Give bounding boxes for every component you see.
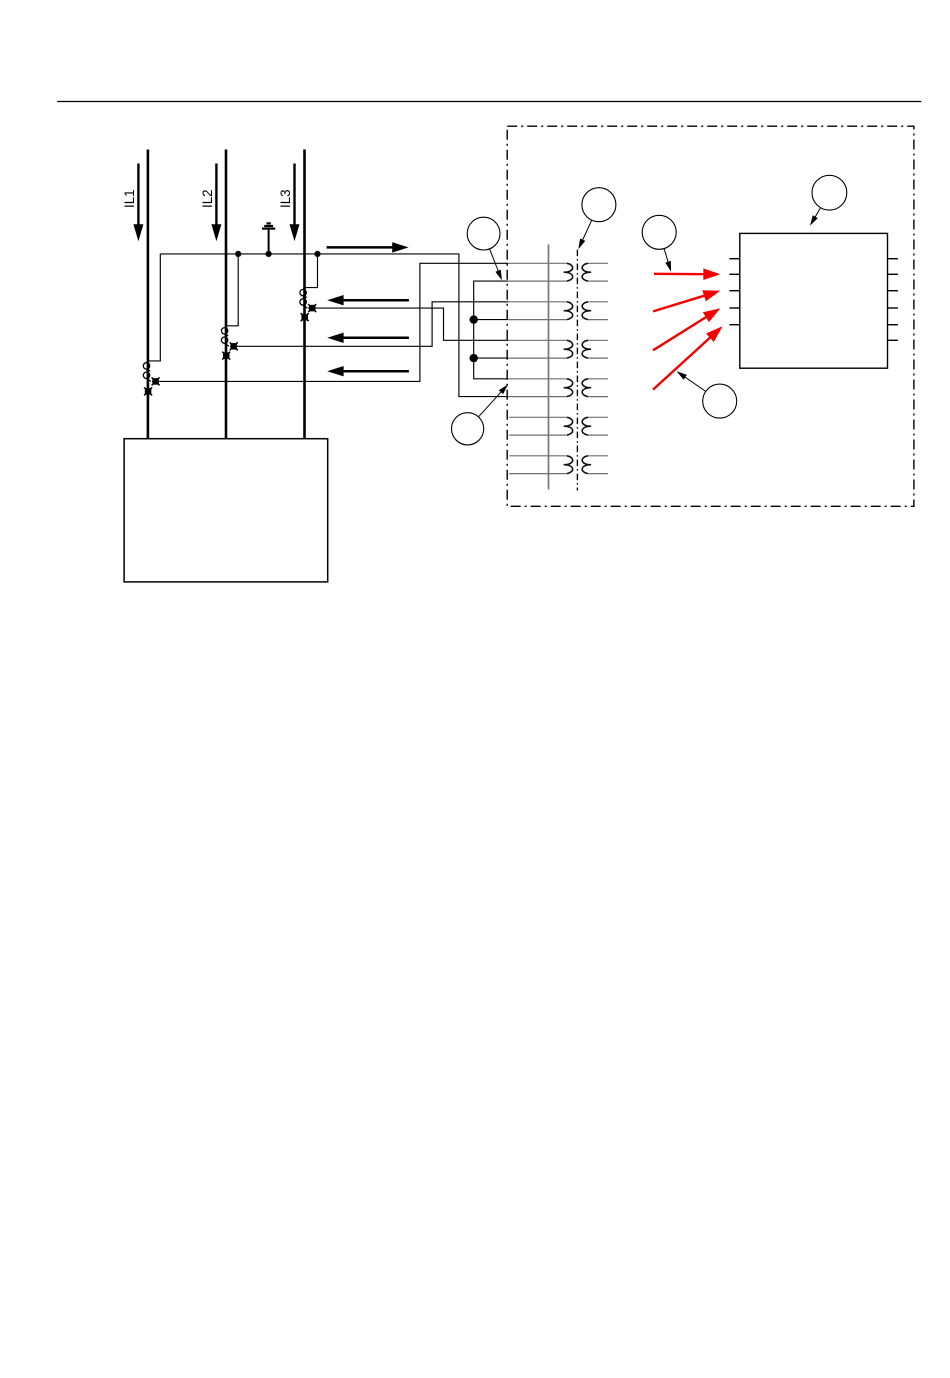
arrow flow right <box>327 242 409 252</box>
shield line <box>548 244 550 489</box>
wire T2 bottom return stub <box>474 319 508 321</box>
load block <box>124 439 328 582</box>
transformer T3 <box>564 340 608 358</box>
wire T3 bottom return stub <box>474 357 508 359</box>
transformer CT2 on L2 <box>221 254 238 346</box>
IC U1 left pins <box>729 259 739 325</box>
IC U1 right pins <box>888 259 898 341</box>
device enclosure boundary <box>507 126 914 506</box>
wire phase conductor L1 <box>147 150 150 439</box>
svg-text:IL2: IL2 <box>200 189 215 208</box>
polarity mark CT1 a <box>152 377 160 385</box>
transformer T5 <box>509 417 608 435</box>
wire T1 primary lead top <box>508 262 567 264</box>
svg-text:IL3: IL3 <box>278 189 293 208</box>
transformer T1 <box>564 263 608 281</box>
transformer core line <box>576 250 578 491</box>
ground <box>262 223 275 254</box>
callout 1 primary side <box>467 217 500 250</box>
wire CT2 secondary <box>230 302 508 347</box>
svg-text:IL1: IL1 <box>122 189 137 208</box>
transformer T2 <box>564 302 608 320</box>
signal arrow red 1 <box>654 268 720 280</box>
horizontal rule <box>57 101 921 103</box>
wire CT3 secondary <box>308 308 508 340</box>
node bus-L3 junction <box>314 251 320 257</box>
wire T1 primary lead bottom <box>508 280 567 282</box>
arrow flow left 2 <box>327 333 409 343</box>
current arrow IL2 <box>211 164 221 242</box>
callout 4 IC <box>812 175 847 210</box>
current arrow IL1 <box>133 164 143 242</box>
wire T2 primary lead bottom <box>508 319 567 321</box>
transformer T6 <box>509 456 608 474</box>
arrow flow left 1 <box>327 295 409 305</box>
transformer T4 <box>564 379 608 397</box>
callout 5 boundary <box>452 413 484 445</box>
wire neutral bus lead in box <box>508 396 567 398</box>
signal arrow red 4 <box>653 326 723 389</box>
current arrow IL3 <box>290 164 300 242</box>
signal arrow red 2 <box>653 290 720 311</box>
callout 3 signals <box>642 215 676 249</box>
wire T2 primary lead top <box>508 301 567 303</box>
signal arrow red 3 <box>653 308 720 350</box>
node return-T2 junction <box>470 315 478 323</box>
wire common return <box>474 281 508 379</box>
polarity mark CT2 a <box>230 342 238 350</box>
wire T3 primary lead bottom <box>508 357 567 359</box>
wire neutral bus <box>160 254 508 397</box>
polarity mark CT2 b <box>222 352 230 360</box>
callout 2 core <box>582 188 616 222</box>
arrow flow left 3 <box>327 366 409 376</box>
callout 6 signal 4 <box>703 384 737 418</box>
wire phase conductor L3 <box>303 150 306 439</box>
polarity mark CT3 a <box>308 304 316 312</box>
node return-T3 junction <box>470 354 478 362</box>
wire T4 primary lead top <box>508 378 567 380</box>
wire T3 primary lead top <box>508 339 567 341</box>
node bus-L2 junction <box>235 251 241 257</box>
wire CT1 secondary <box>152 263 508 381</box>
IC U1 <box>740 233 888 368</box>
polarity mark CT3 b <box>301 313 309 321</box>
wire phase conductor L2 <box>225 150 228 439</box>
transformer CT1 on L1 <box>143 254 160 382</box>
polarity mark CT1 b <box>144 387 152 395</box>
transformer CT3 on L3 <box>300 254 318 308</box>
node bus-ground junction <box>266 251 272 257</box>
